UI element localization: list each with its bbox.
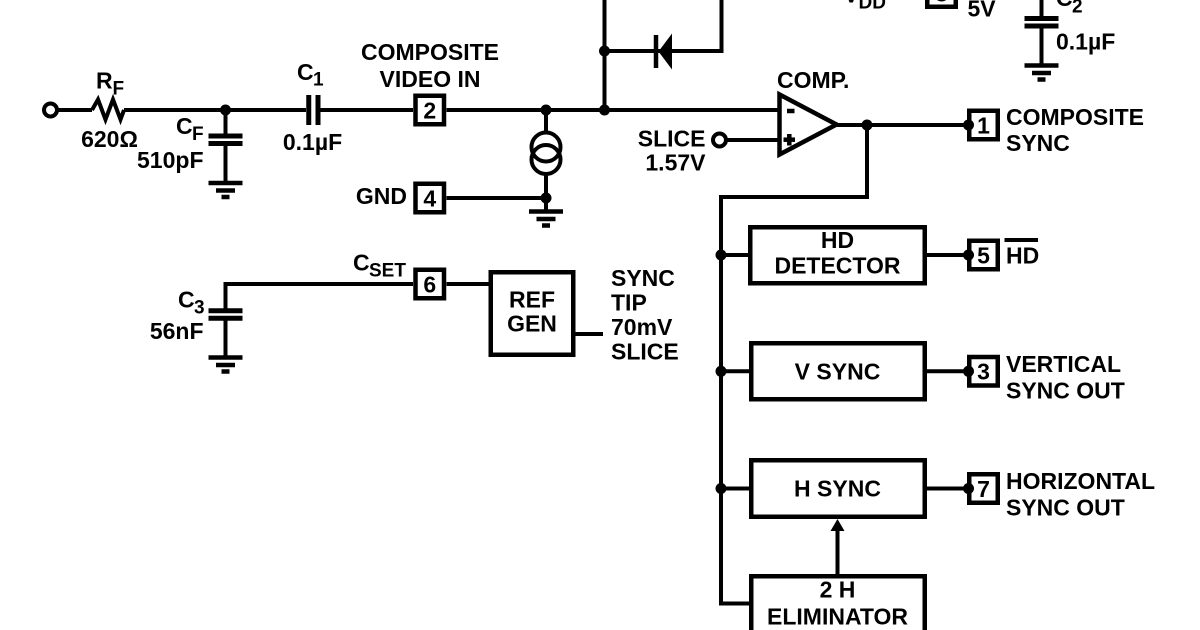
svg-text:COMPOSITE: COMPOSITE — [1006, 104, 1144, 130]
svg-text:HD: HD — [821, 227, 854, 253]
wire slice to plus input — [726, 138, 779, 142]
wire bus to H sync — [721, 487, 750, 491]
ground C3 — [209, 358, 243, 372]
pin 7 — [963, 474, 998, 503]
pin 4 — [416, 184, 445, 213]
label CF — [176, 113, 204, 145]
svg-text:GND: GND — [356, 183, 407, 209]
node HSYNC junction — [716, 483, 727, 494]
node diode branch junction — [599, 105, 610, 116]
label SLICE 1.57V — [638, 126, 706, 176]
block HD detector — [750, 227, 925, 283]
block H sync — [751, 460, 925, 517]
svg-text:8: 8 — [935, 0, 948, 7]
svg-text:DD: DD — [859, 0, 886, 14]
svg-text:3: 3 — [977, 359, 990, 385]
node diode left junction — [599, 46, 610, 57]
svg-text:C: C — [297, 59, 314, 85]
pin 5 — [963, 241, 998, 270]
svg-text:6: 6 — [423, 271, 436, 297]
slice terminal — [713, 134, 726, 147]
block V sync — [751, 343, 925, 399]
label HD bar — [1005, 240, 1040, 269]
svg-text:V: V — [844, 0, 860, 8]
ground CF — [209, 183, 243, 197]
svg-text:510pF: 510pF — [137, 147, 203, 173]
svg-text:SYNC OUT: SYNC OUT — [1006, 494, 1125, 520]
resistor RF — [92, 100, 124, 120]
wire H sync to pin7 — [927, 487, 968, 491]
node gnd junction — [541, 193, 552, 204]
svg-text:C: C — [1056, 0, 1073, 11]
svg-text:7: 7 — [977, 476, 990, 502]
ground C2 — [1025, 66, 1059, 80]
node output junction — [862, 120, 873, 131]
svg-text:2: 2 — [423, 97, 436, 123]
svg-text:REF: REF — [509, 286, 555, 312]
svg-text:1: 1 — [977, 112, 990, 138]
svg-text:SLICE: SLICE — [638, 126, 706, 152]
wire bus to HD detector — [721, 253, 749, 257]
label VERTICAL SYNC OUT — [1006, 351, 1125, 403]
wire comparator output — [837, 123, 967, 127]
wire pin6 to ref gen — [447, 282, 489, 286]
arrow 2H to H sync — [831, 519, 845, 574]
wire RF to C1 — [124, 108, 306, 112]
svg-text:4: 4 — [423, 185, 436, 211]
ground current source — [529, 212, 563, 226]
wire V sync to pin3 — [927, 369, 968, 373]
pin 2 — [416, 96, 445, 125]
svg-text:COMPOSITE: COMPOSITE — [361, 39, 499, 65]
svg-text:0.1µF: 0.1µF — [1056, 29, 1115, 55]
pin 3 — [963, 357, 998, 386]
svg-text:1.57V: 1.57V — [645, 150, 706, 176]
label C1 — [297, 59, 324, 91]
node current source junction — [541, 105, 552, 116]
svg-text:C: C — [353, 250, 370, 276]
svg-text:HD: HD — [1006, 243, 1039, 269]
wire C3 to pin6 — [226, 284, 414, 309]
label SYNC TIP 70mV SLICE — [611, 265, 679, 365]
svg-text:620Ω: 620Ω — [81, 126, 138, 152]
node VSYNC junction — [716, 366, 727, 377]
svg-text:COMP.: COMP. — [777, 67, 849, 93]
svg-text:R: R — [96, 68, 113, 94]
pin 6 — [416, 270, 445, 299]
svg-text:SYNC OUT: SYNC OUT — [1006, 377, 1125, 403]
label COMPOSITE SYNC — [1006, 104, 1144, 156]
svg-text:GEN: GEN — [507, 310, 557, 336]
label HORIZONTAL SYNC OUT — [1006, 468, 1155, 520]
svg-text:5: 5 — [977, 242, 990, 268]
wire HD detector to pin5 — [927, 253, 968, 257]
svg-text:DETECTOR: DETECTOR — [774, 252, 900, 278]
capacitor C2 — [1025, 0, 1059, 66]
svg-text:0.1µF: 0.1µF — [283, 129, 342, 155]
wire pin2 to comparator — [447, 108, 780, 112]
svg-text:V SYNC: V SYNC — [795, 359, 881, 385]
svg-text:2 H: 2 H — [820, 576, 856, 602]
svg-text:HORIZONTAL: HORIZONTAL — [1006, 468, 1155, 494]
svg-text:C: C — [176, 113, 193, 139]
svg-text:VIDEO IN: VIDEO IN — [380, 66, 481, 92]
pin 8 cut — [927, 0, 956, 7]
wire feedback bus — [721, 125, 867, 604]
label COMPOSITE VIDEO IN — [361, 39, 499, 92]
node HD junction — [716, 250, 727, 261]
current source I1 — [532, 110, 561, 198]
svg-text:1: 1 — [313, 70, 324, 91]
svg-text:SET: SET — [369, 261, 406, 282]
svg-text:56nF: 56nF — [150, 318, 204, 344]
wire vertical left cut — [603, 0, 607, 110]
capacitor C3 — [209, 311, 243, 358]
svg-text:F: F — [192, 124, 204, 145]
capacitor C1 — [309, 95, 318, 125]
svg-text:VERTICAL: VERTICAL — [1006, 351, 1121, 377]
wire input to RF — [57, 108, 92, 112]
svg-text:TIP: TIP — [611, 290, 647, 316]
svg-text:H SYNC: H SYNC — [794, 476, 881, 502]
label CSET — [353, 250, 406, 282]
svg-text:SYNC: SYNC — [611, 265, 675, 291]
label C2 — [1056, 0, 1083, 17]
svg-text:70mV: 70mV — [611, 314, 673, 340]
input terminal — [44, 104, 57, 117]
svg-text:SLICE: SLICE — [611, 339, 679, 365]
svg-text:5V: 5V — [968, 0, 997, 22]
wire gnd lead — [544, 198, 548, 212]
op-amp comparator U1 — [780, 95, 837, 155]
node CF junction — [220, 105, 231, 116]
svg-text:3: 3 — [194, 298, 205, 319]
pin 1 — [963, 111, 998, 140]
wire C1 to pin2 — [318, 108, 413, 112]
label RF — [96, 68, 124, 100]
label C3 — [178, 287, 205, 319]
wire diode row — [605, 0, 722, 51]
svg-text:C: C — [178, 287, 195, 313]
block REF GEN — [491, 272, 574, 355]
svg-text:SYNC: SYNC — [1006, 130, 1070, 156]
label VDD — [844, 0, 886, 14]
svg-text:F: F — [113, 78, 125, 99]
svg-text:2: 2 — [1072, 0, 1083, 17]
svg-text:ELIMINATOR: ELIMINATOR — [767, 604, 908, 630]
wire ref gen output — [576, 332, 604, 336]
wire bus to V sync — [721, 369, 750, 373]
wire pin4 to gnd node — [447, 196, 547, 200]
capacitor CF — [209, 110, 243, 181]
block 2H eliminator — [751, 576, 925, 630]
diode D1 — [656, 34, 672, 70]
